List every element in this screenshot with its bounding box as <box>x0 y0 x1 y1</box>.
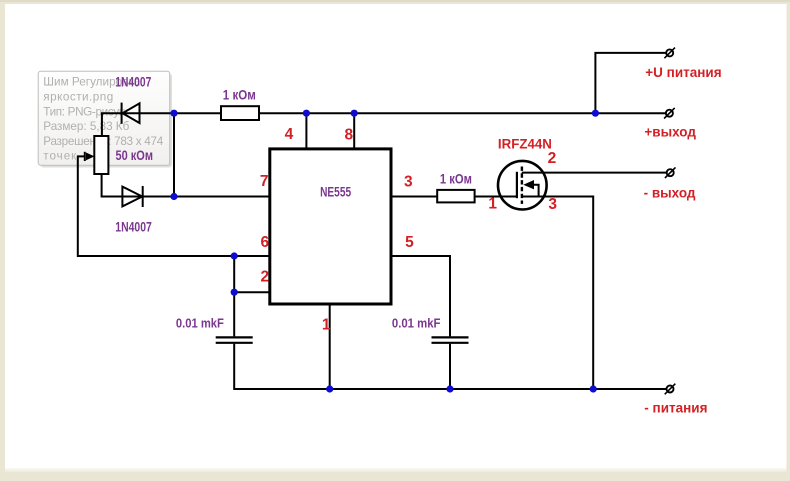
svg-text:- выход: - выход <box>644 185 696 200</box>
svg-text:+выход: +выход <box>644 125 696 140</box>
svg-text:1N4007: 1N4007 <box>115 219 152 235</box>
svg-text:NE555: NE555 <box>320 183 351 199</box>
svg-text:1 кОм: 1 кОм <box>440 171 472 187</box>
svg-text:IRFZ44N: IRFZ44N <box>498 137 552 152</box>
svg-text:Размер: 5,83 Кб: Размер: 5,83 Кб <box>43 120 129 133</box>
svg-text:3: 3 <box>404 173 413 190</box>
svg-text:2: 2 <box>261 268 270 285</box>
svg-text:8: 8 <box>345 126 354 143</box>
svg-text:1 кОм: 1 кОм <box>223 86 256 102</box>
svg-text:0.01 mkF: 0.01 mkF <box>176 316 224 331</box>
svg-text:7: 7 <box>260 173 269 190</box>
svg-text:5: 5 <box>405 234 414 251</box>
svg-text:2: 2 <box>548 150 557 167</box>
svg-text:+U питания: +U питания <box>645 65 721 80</box>
svg-text:- питания: - питания <box>644 401 707 416</box>
svg-text:0.01 mkF: 0.01 mkF <box>392 316 441 331</box>
svg-text:3: 3 <box>548 196 557 213</box>
svg-text:точек: точек <box>43 150 77 163</box>
svg-text:1: 1 <box>322 316 331 333</box>
svg-text:1: 1 <box>488 196 497 213</box>
svg-text:1N4007: 1N4007 <box>115 74 151 90</box>
svg-text:6: 6 <box>261 234 270 251</box>
svg-text:яркости.png: яркости.png <box>43 91 113 104</box>
svg-text:50 кОм: 50 кОм <box>116 147 154 163</box>
svg-text:4: 4 <box>285 126 294 143</box>
